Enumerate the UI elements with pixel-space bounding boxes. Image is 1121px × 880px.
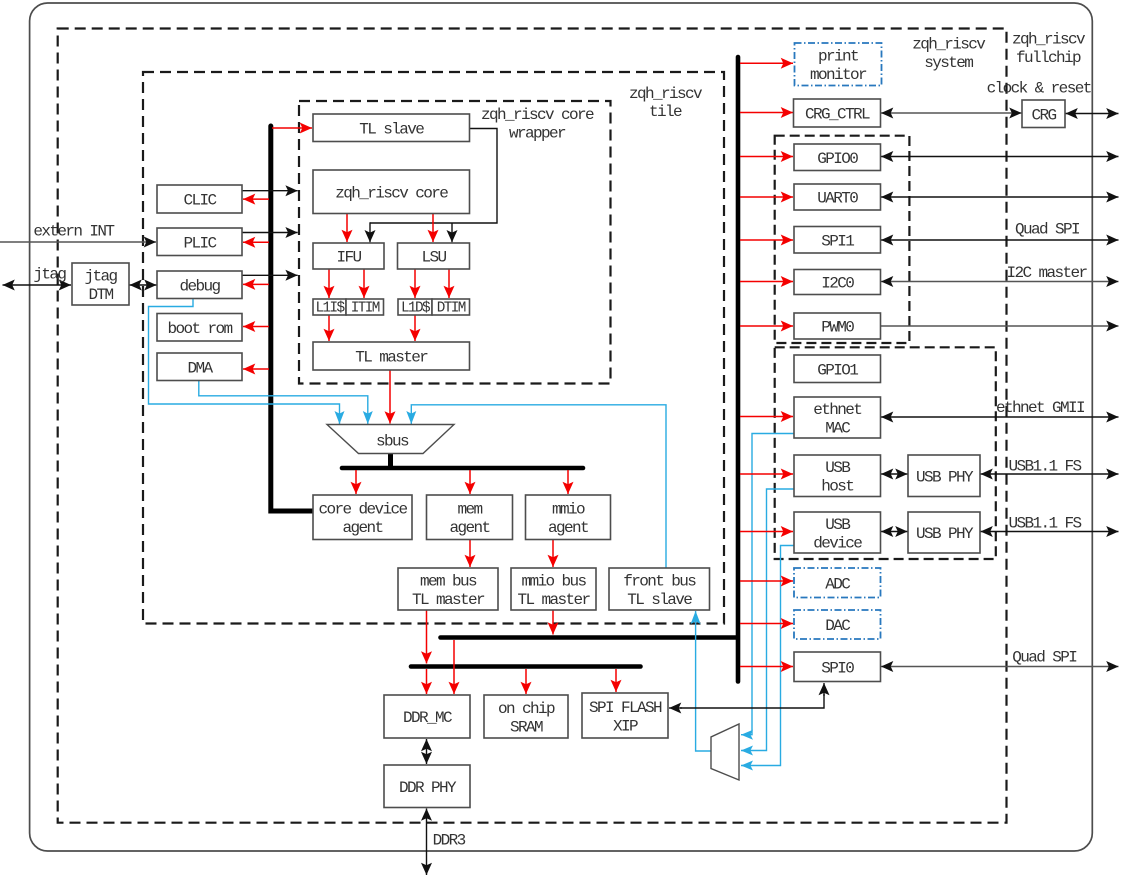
label zqh_riscv fullchip xyxy=(1012,31,1086,67)
svg-text:DDR3: DDR3 xyxy=(433,832,466,850)
IFU block xyxy=(313,243,384,269)
svg-text:debug: debug xyxy=(179,277,220,295)
mmio bus TL master block xyxy=(511,568,596,610)
DMA block xyxy=(157,353,242,381)
black arrow PWM0 output xyxy=(881,321,1119,332)
black double arrow CRG to chip edge xyxy=(1066,108,1119,119)
label zqh_riscv tile xyxy=(629,85,703,121)
LSU block xyxy=(398,243,470,269)
label extern INT xyxy=(33,223,114,241)
svg-text:USB PHY: USB PHY xyxy=(916,468,974,486)
svg-text:tile: tile xyxy=(649,103,682,121)
jtag DTM block xyxy=(72,263,129,305)
red arrow bus to I2C0 xyxy=(740,276,793,287)
cyan wire ethnet MAC to mux xyxy=(741,434,794,740)
svg-text:USB1.1 FS: USB1.1 FS xyxy=(1008,458,1081,476)
svg-text:TL slave: TL slave xyxy=(359,120,424,138)
red arrow upper bar to DDR_MC xyxy=(449,640,460,694)
black double arrow DDR PHY to DDR3 pad xyxy=(421,809,432,876)
USB PHY device block xyxy=(908,512,980,553)
red arrow sbus bar to mem agent xyxy=(465,470,476,494)
svg-text:front bus: front bus xyxy=(623,572,696,590)
svg-text:I2C master: I2C master xyxy=(1006,264,1087,282)
svg-text:GPIO0: GPIO0 xyxy=(817,150,858,168)
cyan wire front bus to sbus xyxy=(406,405,666,568)
label ethnet GMII xyxy=(996,399,1085,417)
svg-text:LSU: LSU xyxy=(421,249,446,267)
svg-text:UART0: UART0 xyxy=(817,190,858,208)
svg-text:XIP: XIP xyxy=(613,717,638,735)
system right thick bus xyxy=(736,57,741,682)
red arrow bus to SPI0 xyxy=(740,661,793,672)
svg-text:Quad SPI: Quad SPI xyxy=(1015,221,1080,239)
label Quad SPI bottom xyxy=(1012,649,1077,667)
svg-text:fullchip: fullchip xyxy=(1016,49,1081,67)
front bus TL slave block xyxy=(609,568,710,610)
red arrow bus to USB device xyxy=(740,526,793,537)
red arrow bus to UART0 xyxy=(740,192,793,203)
svg-text:mem: mem xyxy=(457,501,482,519)
svg-text:core device: core device xyxy=(318,501,407,519)
svg-text:USB: USB xyxy=(825,459,850,477)
label I2C master xyxy=(1006,264,1087,282)
svg-text:TL slave: TL slave xyxy=(627,591,692,609)
svg-text:USB1.1 FS: USB1.1 FS xyxy=(1008,515,1081,533)
cyan wire mux to front bus TL slave xyxy=(691,611,711,751)
SPI1 block xyxy=(794,227,881,254)
DDR PHY block xyxy=(384,765,470,808)
svg-text:ethnet: ethnet xyxy=(813,401,861,419)
red arrow bus to TL slave xyxy=(272,123,312,134)
svg-text:on chip: on chip xyxy=(498,700,555,718)
UART0 block xyxy=(794,184,881,210)
svg-text:jtag: jtag xyxy=(84,267,117,285)
zqh_riscv core wrapper dashed boundary xyxy=(299,101,611,384)
CRG block xyxy=(1022,100,1065,128)
boot rom block xyxy=(157,314,242,342)
svg-text:agent: agent xyxy=(548,519,588,537)
black double arrow UART0 io xyxy=(881,192,1119,203)
svg-text:DDR_MC: DDR_MC xyxy=(403,709,452,727)
label zqh_riscv core wrapper xyxy=(481,106,594,142)
L1I$ block xyxy=(313,299,346,317)
black double arrow USB device to USB PHY xyxy=(881,526,908,537)
svg-text:Quad SPI: Quad SPI xyxy=(1012,649,1077,667)
red arrow mem bus TL master to lower bar xyxy=(421,611,432,664)
red arrow bus to DAC xyxy=(740,618,793,629)
black wire TL slave feedback path xyxy=(370,129,497,224)
red arrow mmio agent to mmio bus TL master xyxy=(548,540,559,567)
svg-text:TL master: TL master xyxy=(412,591,485,609)
PWM0 block xyxy=(794,313,881,339)
DAC block xyxy=(794,610,881,639)
svg-text:zqh_riscv: zqh_riscv xyxy=(629,85,703,103)
red arrow lower bar to on chip SRAM xyxy=(521,669,532,694)
ADC block xyxy=(794,568,881,598)
black arrow debug to core wrapper xyxy=(242,270,298,281)
label DDR3 xyxy=(433,832,466,850)
label USB1.1 FS device xyxy=(1008,515,1081,533)
svg-text:IFU: IFU xyxy=(336,249,361,267)
svg-text:mmio bus: mmio bus xyxy=(521,572,586,590)
red arrow sbus bar to core device agent xyxy=(351,470,362,494)
black double arrow USB host to USB PHY xyxy=(881,469,908,480)
black double arrow I2C0 io xyxy=(881,276,1119,287)
USB device block xyxy=(794,512,881,553)
svg-text:monitor: monitor xyxy=(810,66,867,84)
svg-text:L1D$: L1D$ xyxy=(401,301,431,317)
red arrow lower bar to SPI FLASH XIP xyxy=(611,669,622,692)
print monitor block xyxy=(795,43,882,86)
GPIO1 block xyxy=(794,355,881,383)
sbus output stub xyxy=(388,453,393,467)
svg-text:TL master: TL master xyxy=(355,349,428,367)
PLIC block xyxy=(157,228,242,256)
I2C0 block xyxy=(794,270,881,295)
svg-text:system: system xyxy=(924,54,973,72)
red arrow bus to ADC xyxy=(740,576,793,587)
cyan wire USB device to mux xyxy=(741,546,794,771)
svg-text:zqh_riscv: zqh_riscv xyxy=(912,36,986,54)
red arrow bus to ethnet MAC xyxy=(740,411,793,422)
CLIC block xyxy=(157,185,242,213)
DDR_MC block xyxy=(384,695,470,738)
memory bus bar upper xyxy=(441,635,738,640)
on chip SRAM block xyxy=(484,695,568,738)
red arrow IFU to ITIM xyxy=(359,270,370,299)
svg-text:DAC: DAC xyxy=(825,617,850,635)
svg-text:DMA: DMA xyxy=(187,359,213,377)
svg-text:SRAM: SRAM xyxy=(510,718,543,736)
mem bus TL master block xyxy=(398,568,498,610)
ethnet MAC block xyxy=(794,397,881,438)
red arrow L1D$ to TL master xyxy=(410,316,421,342)
svg-text:L1I$: L1I$ xyxy=(316,301,346,317)
tile left thick bus xyxy=(271,126,313,511)
red arrow bus to DMA xyxy=(243,364,269,375)
label USB1.1 FS host xyxy=(1008,458,1081,476)
black double arrow ethnet GMII io xyxy=(881,412,1119,423)
svg-text:GPIO1: GPIO1 xyxy=(817,361,858,379)
L1D$ block xyxy=(398,299,432,317)
peripheral group0 dashed boundary xyxy=(775,136,910,343)
jtag input double arrow xyxy=(3,280,72,291)
zqh_riscv core block xyxy=(313,170,470,214)
SPI0 block xyxy=(794,652,881,682)
cyan wire debug to sbus xyxy=(149,299,345,425)
DTIM block xyxy=(432,299,470,317)
svg-text:print: print xyxy=(818,48,858,66)
red arrow bus to print monitor xyxy=(740,58,793,69)
red arrow core to IFU xyxy=(342,214,353,242)
svg-text:SPI1: SPI1 xyxy=(821,232,854,250)
USB host block xyxy=(794,455,881,497)
black arrow into SPI FLASH XIP right xyxy=(669,703,682,714)
red arrow bus to PWM0 xyxy=(740,321,793,332)
jtag DTM to debug double arrow xyxy=(130,280,157,291)
red arrow mem agent to mem bus TL master xyxy=(465,540,476,567)
red arrow bus to GPIO0 xyxy=(740,151,793,162)
svg-text:DTM: DTM xyxy=(88,286,113,304)
peripheral dma mux trapezoid xyxy=(711,724,739,780)
red arrow core to LSU xyxy=(428,214,439,242)
label jtag xyxy=(33,266,66,284)
svg-text:extern INT: extern INT xyxy=(33,223,114,241)
svg-text:jtag: jtag xyxy=(33,266,66,284)
black arrow wire to IFU xyxy=(365,222,376,242)
svg-text:CRG: CRG xyxy=(1031,106,1056,124)
USB PHY host block xyxy=(908,455,980,497)
red arrow L1I$ to TL master xyxy=(324,316,335,342)
svg-text:agent: agent xyxy=(342,519,382,537)
label Quad SPI top xyxy=(1015,221,1080,239)
svg-text:USB PHY: USB PHY xyxy=(916,525,974,543)
svg-text:wrapper: wrapper xyxy=(509,124,566,142)
svg-text:PLIC: PLIC xyxy=(183,234,216,252)
red arrow LSU to DTIM xyxy=(444,270,455,299)
svg-text:agent: agent xyxy=(449,519,489,537)
red arrow sbus bar to mmio agent xyxy=(563,470,574,494)
black arrow wire to LSU xyxy=(447,223,458,242)
label zqh_riscv system xyxy=(912,36,986,72)
zqh_riscv tile dashed boundary xyxy=(143,72,724,624)
red arrow bus to debug xyxy=(243,279,269,290)
CRG_CTRL block xyxy=(794,99,881,127)
red arrow bus to PLIC xyxy=(243,237,269,248)
svg-text:zqh_riscv: zqh_riscv xyxy=(1012,31,1086,49)
svg-text:boot rom: boot rom xyxy=(167,320,232,338)
sbus horizontal bus bar xyxy=(342,466,583,471)
svg-text:USB: USB xyxy=(825,516,850,534)
svg-text:ethnet GMII: ethnet GMII xyxy=(996,399,1085,417)
red arrow lower bar to DDR_MC xyxy=(421,669,432,694)
svg-text:DTIM: DTIM xyxy=(437,301,466,317)
svg-text:sbus: sbus xyxy=(376,433,409,451)
black double arrow SPI0 quad spi io xyxy=(881,661,1119,672)
debug block xyxy=(157,271,242,299)
red arrow IFU to L1I$ xyxy=(324,270,335,299)
zqh_riscv system dashed boundary xyxy=(58,29,1007,823)
svg-text:mem bus: mem bus xyxy=(420,572,477,590)
black double arrow USB PHY1 io xyxy=(981,469,1119,480)
svg-text:host: host xyxy=(821,478,853,496)
red arrow LSU to L1D$ xyxy=(410,270,421,299)
red arrow mmio bus TL master to upper bar xyxy=(548,611,559,635)
svg-text:SPI FLASH: SPI FLASH xyxy=(589,699,662,717)
ITIM block xyxy=(346,299,384,317)
black arrow PLIC to core wrapper xyxy=(242,227,298,238)
TL slave block xyxy=(313,114,470,142)
sbus crossbar trapezoid xyxy=(327,425,454,454)
svg-text:device: device xyxy=(813,534,862,552)
black wire SPI0 to SPI FLASH XIP xyxy=(680,694,824,708)
red arrow bus to USB host xyxy=(740,469,793,480)
black double arrow USB PHY2 io xyxy=(981,526,1119,537)
black arrow into SPI0 bottom xyxy=(819,683,830,696)
label clock & reset xyxy=(987,80,1091,98)
mmio agent block xyxy=(526,495,611,540)
black arrow CLIC to core wrapper xyxy=(242,185,298,196)
svg-text:CRG_CTRL: CRG_CTRL xyxy=(805,106,870,124)
svg-text:DDR PHY: DDR PHY xyxy=(399,779,457,797)
memory bus bar lower xyxy=(411,664,641,669)
red arrow bus to CRG_CTRL xyxy=(740,107,793,118)
TL master block xyxy=(313,342,470,370)
red arrow bus to CLIC xyxy=(243,194,269,205)
GPIO0 block xyxy=(794,144,881,171)
red arrow bus to boot rom xyxy=(243,321,269,332)
peripheral group1 dashed boundary xyxy=(775,347,996,559)
black double arrow CRG_CTRL to CRG xyxy=(881,108,1022,119)
svg-text:CLIC: CLIC xyxy=(183,192,216,210)
svg-text:mmio: mmio xyxy=(552,501,585,519)
svg-text:ITIM: ITIM xyxy=(351,301,380,317)
svg-text:clock & reset: clock & reset xyxy=(987,80,1091,98)
mem agent block xyxy=(427,495,513,540)
svg-text:MAC: MAC xyxy=(825,419,850,437)
core device agent block xyxy=(313,495,412,540)
svg-text:ADC: ADC xyxy=(825,575,850,593)
svg-text:I2C0: I2C0 xyxy=(821,275,854,293)
red arrow bus to SPI1 xyxy=(740,235,793,246)
cyan wire USB host to mux xyxy=(741,489,794,756)
black double arrow DDR_MC to DDR PHY xyxy=(421,739,432,764)
red arrow TL master to sbus xyxy=(385,371,396,424)
cyan wire DMA to sbus xyxy=(199,381,373,424)
svg-text:PWM0: PWM0 xyxy=(821,319,854,337)
svg-text:zqh_riscv core: zqh_riscv core xyxy=(335,184,448,202)
svg-text:zqh_riscv core: zqh_riscv core xyxy=(481,106,594,124)
black double arrow GPIO0 io xyxy=(881,151,1119,162)
SPI FLASH XIP block xyxy=(582,693,668,738)
extern INT input arrow xyxy=(0,237,156,248)
svg-text:TL master: TL master xyxy=(517,591,590,609)
black double arrow SPI1 quad spi io xyxy=(881,235,1119,246)
svg-text:SPI0: SPI0 xyxy=(821,659,854,677)
